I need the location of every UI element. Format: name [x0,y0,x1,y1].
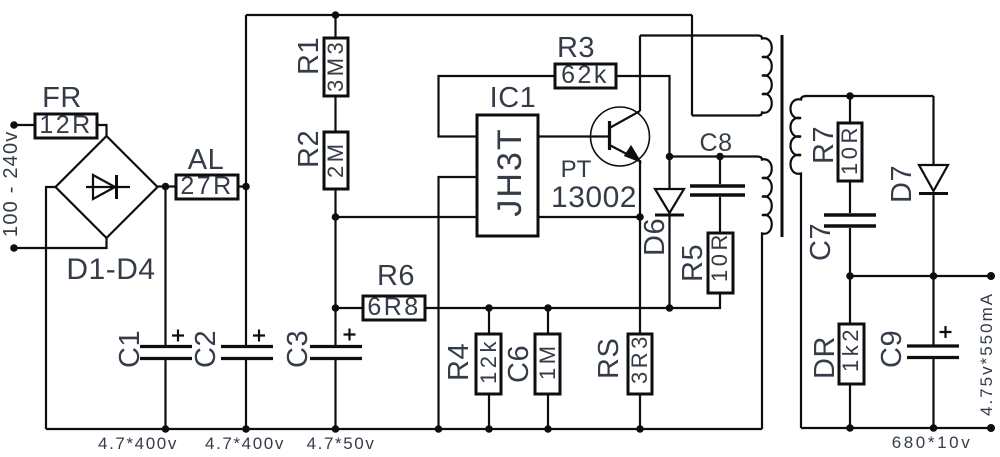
output rating label [977,292,996,416]
wire [334,189,336,308]
diode D6 [639,157,684,309]
svg-text:RS: RS [593,338,625,379]
resistor R1 3M3 [293,37,348,96]
node [332,304,340,312]
op-amp U1 IC1 JH3T [477,82,538,236]
resistor R4 12k [443,308,501,429]
svg-text:1M: 1M [535,342,560,380]
diode D7 [886,96,948,276]
wire snubber node [670,155,758,157]
capacitor C1 4.7uF 400v [114,187,192,431]
wire emitter down [639,160,641,334]
bottom rail wire [46,428,762,430]
svg-text:R2: R2 [293,130,325,168]
capacitor C7 [805,181,876,276]
svg-text:FR: FR [42,82,82,114]
svg-text:R4: R4 [443,343,475,381]
node [636,425,644,433]
svg-text:680*10v: 680*10v [892,433,973,452]
capacitor C8 [690,129,745,233]
value label C2 [205,434,285,453]
node [485,425,493,433]
svg-text:4.75v*550mA: 4.75v*550mA [977,292,996,416]
svg-text:R7: R7 [808,126,840,164]
capacitor C2 4.7uF 400v [190,330,273,430]
resistor R6 6R8 [363,260,425,321]
capacitor C9 680uF 10v [876,276,959,428]
resistor FR 12R [35,82,97,139]
svg-text:D6: D6 [639,218,671,256]
node label 100-240v [0,130,22,237]
svg-text:C9: C9 [876,330,908,368]
resistor R2 2M [293,130,348,189]
node [930,272,938,280]
node [332,425,340,433]
value label C1 [98,434,178,453]
svg-text:10R: 10R [707,231,732,282]
secondary top wire [805,95,934,97]
wire [97,125,107,137]
svg-text:C7: C7 [805,223,837,261]
wire IC1 net vertical [439,76,556,137]
node [435,425,443,433]
node [332,213,340,221]
wire [616,76,670,157]
svg-text:C2: C2 [190,330,222,368]
svg-text:D1-D4: D1-D4 [66,253,155,286]
svg-text:R3: R3 [557,32,595,64]
wire [439,177,478,429]
svg-text:C6: C6 [503,345,535,383]
wire [639,394,641,429]
wire collector to primary top [640,34,758,36]
wire [14,124,35,126]
transformer core [781,35,784,237]
svg-text:4.7*400v: 4.7*400v [205,434,285,453]
svg-text:JH3T: JH3T [491,127,529,216]
node [332,11,340,19]
svg-text:3R3: 3R3 [627,333,652,384]
svg-text:27R: 27R [180,172,233,200]
node [544,425,552,433]
node emitter [636,213,644,221]
output mid wire [850,275,991,277]
svg-text:62k: 62k [561,61,609,89]
capacitor C3 4.7uF 50v [282,308,362,429]
node [485,304,493,312]
wire [158,185,247,187]
node [544,304,552,312]
svg-text:4.7*50v: 4.7*50v [307,434,376,453]
input terminal bottom [10,244,18,252]
capacitor C6 1M [503,308,560,429]
wire [46,187,56,429]
svg-text:C3: C3 [282,330,314,368]
node [666,153,674,161]
svg-text:12R: 12R [39,111,92,139]
resistor RS 3R3 [593,333,652,394]
svg-text:R1: R1 [293,37,325,75]
svg-text:6R8: 6R8 [367,293,420,321]
value label C9 [892,433,973,452]
resistor R7 10R [808,96,862,181]
resistor AL 27R [176,144,238,200]
wire feedback net [336,307,670,309]
svg-text:3M3: 3M3 [323,39,348,92]
top rail wire [246,14,692,16]
wire base [538,135,608,137]
svg-text:13002: 13002 [551,181,637,214]
node [846,272,854,280]
svg-text:10R: 10R [837,124,862,175]
resistor R3 62k [555,32,616,89]
wire primary bottom to top rail [691,15,693,116]
secondary bottom rail [801,427,991,429]
wire [334,15,336,38]
svg-text:R6: R6 [377,260,415,292]
node [846,424,854,432]
wire collector [639,36,641,112]
transformer primary winding [692,36,772,116]
node [162,425,170,433]
svg-text:R5: R5 [677,244,709,282]
resistor DR 1k2 [809,276,864,428]
svg-text:C8: C8 [700,129,733,157]
node [930,424,938,432]
wire [670,293,721,308]
node [162,183,170,191]
svg-text:IC1: IC1 [490,82,537,114]
value label C3 [307,434,376,453]
wire R2 bottom to IC1 pin3 [336,216,478,218]
svg-text:100 - 240v: 100 - 240v [0,130,22,237]
svg-text:DR: DR [809,336,841,379]
node [846,92,854,100]
svg-text:D7: D7 [886,165,918,203]
transformer secondary winding [791,96,808,428]
svg-text:PT: PT [561,156,592,183]
svg-text:C1: C1 [114,330,146,368]
svg-text:4.7*400v: 4.7*400v [98,434,178,453]
resistor R5 10R [677,231,733,293]
input terminal top [10,121,18,129]
transistor Q1 PT 13002 [551,107,649,214]
transformer feedback winding [757,157,772,430]
wire vertical DC+ left [245,15,247,345]
bridge rectifier D1-D4 [56,136,158,286]
svg-text:1k2: 1k2 [838,326,863,372]
svg-text:2M: 2M [323,140,348,178]
svg-text:12k: 12k [476,338,501,384]
output terminal minus [987,424,995,432]
wire [14,238,107,248]
wire [334,96,336,132]
node [242,183,250,191]
output terminal plus [987,272,995,280]
node [716,153,724,161]
node [666,304,674,312]
node [242,425,250,433]
wire emitter to IC1 [538,216,640,218]
